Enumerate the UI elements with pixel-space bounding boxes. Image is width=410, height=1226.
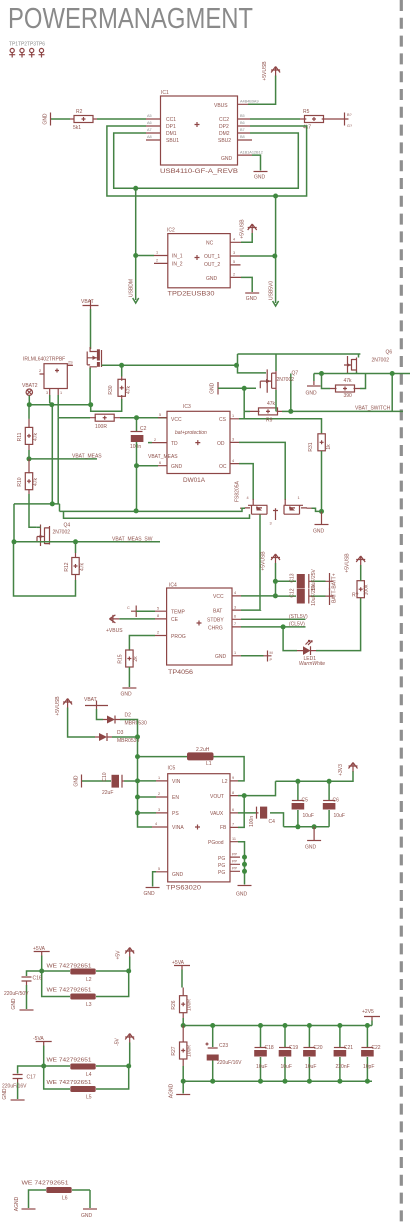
capacitor C12 xyxy=(290,583,318,605)
svg-text:IC1: IC1 xyxy=(161,90,169,96)
resistor R30 xyxy=(108,377,132,400)
svg-text:C22: C22 xyxy=(371,1045,380,1051)
svg-text:Q4: Q4 xyxy=(64,523,71,529)
node C20 rails xyxy=(307,1023,312,1028)
node bottom rail left xyxy=(181,1079,186,1084)
pin cross terminal at TEMP xyxy=(127,606,136,618)
svg-text:6: 6 xyxy=(232,808,234,812)
svg-text:GND: GND xyxy=(305,845,317,851)
svg-text:PROG: PROG xyxy=(171,634,186,640)
svg-text:VOUT: VOUT xyxy=(210,794,224,800)
node batt line 2 / VCC xyxy=(273,593,278,598)
resistor R26 xyxy=(171,988,193,1019)
svg-text:DW01A: DW01A xyxy=(183,477,205,484)
node C2 top xyxy=(134,415,139,420)
svg-text:GND: GND xyxy=(306,391,318,397)
svg-text:PP: PP xyxy=(232,853,238,857)
capacitor C13 xyxy=(290,568,318,590)
wire IC3 OC to fet gate xyxy=(239,464,253,500)
resistor R12 xyxy=(14,542,86,596)
svg-text:C13: C13 xyxy=(290,573,296,582)
svg-text:3: 3 xyxy=(233,251,235,255)
svg-text:A4B4B9A9: A4B4B9A9 xyxy=(240,100,259,104)
wire L1 to pin L2 xyxy=(214,757,245,781)
svg-text:6: 6 xyxy=(159,461,161,465)
svg-text:R5: R5 xyxy=(303,109,310,115)
resistor R27 xyxy=(171,1026,193,1067)
wire left loop lines xyxy=(14,405,60,542)
IC4 right pin stubs xyxy=(232,591,241,656)
svg-text:R10: R10 xyxy=(17,477,23,486)
LED1 diode xyxy=(297,641,325,668)
node PG1 xyxy=(242,855,247,860)
ground at R15 xyxy=(121,688,137,698)
svg-text:TP4056: TP4056 xyxy=(168,669,193,676)
wire VBAT to D2 xyxy=(97,709,104,720)
wire VOUT to rail xyxy=(238,781,276,795)
IC5 right pin stubs xyxy=(230,776,240,871)
svg-text:5: 5 xyxy=(158,867,160,871)
svg-text:A8: A8 xyxy=(147,135,152,139)
IC5 TPS63020 box xyxy=(166,766,230,892)
node IC2 output junction xyxy=(272,254,277,259)
svg-text:IC5: IC5 xyxy=(168,766,176,772)
svg-text:PG: PG xyxy=(218,863,225,869)
svg-text:4: 4 xyxy=(233,238,235,242)
node Q6 line left xyxy=(319,371,324,376)
ground at cap rail xyxy=(305,827,321,851)
ground at bead right xyxy=(81,1209,97,1219)
svg-text:2: 2 xyxy=(157,631,159,635)
svg-text:AGND: AGND xyxy=(169,1083,175,1098)
svg-text:R15: R15 xyxy=(118,654,124,663)
svg-text:GND: GND xyxy=(144,891,156,897)
ground at PG column xyxy=(236,886,252,898)
node C2 drop on line1 xyxy=(134,508,139,513)
svg-text:PGood: PGood xyxy=(208,840,224,846)
node C2 bottom / IC3 gnd xyxy=(134,463,139,468)
transistor Q6 2N7002 xyxy=(344,350,392,373)
svg-text:PP: PP xyxy=(232,867,238,871)
resistor R9 47k on CS line xyxy=(244,401,291,424)
svg-text:100R: 100R xyxy=(187,999,193,1011)
svg-text:1: 1 xyxy=(158,776,160,780)
node meas_sw R12 xyxy=(73,539,78,544)
svg-text:CE: CE xyxy=(171,617,179,623)
svg-text:47k: 47k xyxy=(80,562,86,571)
svg-text:VBAT: VBAT xyxy=(81,299,94,305)
svg-text:GND: GND xyxy=(215,654,227,660)
svg-text:POWERMANAGMENT: POWERMANAGMENT xyxy=(8,3,253,35)
supply arrow +5VUSB at diode D3 xyxy=(55,696,72,716)
wire VBAT2 to rail xyxy=(28,396,30,405)
svg-text:2N7002: 2N7002 xyxy=(53,530,71,536)
svg-text:IN_2: IN_2 xyxy=(172,262,183,268)
svg-text:2: 2 xyxy=(156,259,158,263)
wire +2V5 stem xyxy=(371,1021,373,1026)
svg-text:VBAT_MEAS: VBAT_MEAS xyxy=(148,454,178,460)
svg-text:100R: 100R xyxy=(95,424,107,430)
svg-text:P: P xyxy=(270,658,273,662)
wire VBAT_SWITCH line xyxy=(291,374,403,412)
svg-text:1: 1 xyxy=(60,391,62,395)
wire +5VUSB to D3 xyxy=(68,708,95,738)
wire Q7 gate from line A node xyxy=(237,365,267,373)
wire BAT pin up to FS8205A xyxy=(241,609,261,611)
node block1 right xyxy=(126,969,131,974)
wire -5VA stem xyxy=(43,1046,45,1067)
svg-text:B?: B? xyxy=(347,113,352,117)
testpoint TP1 xyxy=(9,48,15,57)
svg-text:+3V3: +3V3 xyxy=(338,764,344,776)
ferrite bead L2 xyxy=(42,964,129,984)
svg-text:B7: B7 xyxy=(240,128,245,132)
svg-text:100k: 100k xyxy=(364,584,370,595)
svg-text:+5V: +5V xyxy=(116,950,122,960)
wire USB data drop left xyxy=(135,188,137,300)
svg-text:5: 5 xyxy=(233,260,235,264)
wire IC3 CS to R31 xyxy=(239,419,322,434)
svg-text:7: 7 xyxy=(232,823,234,827)
ground at C16 xyxy=(11,998,34,1010)
svg-text:C18: C18 xyxy=(265,1045,274,1051)
node VBAT rail Q5 xyxy=(88,402,93,407)
node C5 top xyxy=(295,779,300,784)
net arrow USBDP xyxy=(269,281,279,306)
svg-text:1: 1 xyxy=(232,414,234,418)
ground at IC5 left xyxy=(144,888,160,898)
svg-text:9: 9 xyxy=(232,776,234,780)
svg-text:TEMP: TEMP xyxy=(171,610,186,616)
wire VBAT_MEAS_SW line xyxy=(14,541,160,543)
node meas_sw left xyxy=(12,539,17,544)
p-mosfet Q5 xyxy=(87,347,101,369)
wire CE pin to +VBUS xyxy=(119,618,155,620)
wire arrow stem block2 xyxy=(129,1043,131,1067)
wire GND to R2 xyxy=(51,118,70,120)
svg-text:USBDM: USBDM xyxy=(129,279,135,297)
wire jog up to 47k line xyxy=(243,411,245,418)
svg-text:GND: GND xyxy=(172,872,184,878)
svg-text:VBAT_MEAS: VBAT_MEAS xyxy=(72,454,102,460)
resistor R29 below Q6 xyxy=(322,374,366,400)
node VOUT xyxy=(242,793,247,798)
supply arrow +VBUS (left) xyxy=(106,615,123,634)
resistor R31 xyxy=(308,434,332,452)
wire TEMP pin xyxy=(136,610,155,612)
svg-text:10uF/25V: 10uF/25V xyxy=(311,583,317,605)
node C22 rails xyxy=(365,1023,370,1028)
wire bead right down xyxy=(89,1190,91,1208)
node diode OR xyxy=(135,734,140,739)
IC4 TP4056 box xyxy=(167,583,232,677)
capacitor C22 xyxy=(361,1026,381,1082)
svg-text:47k: 47k xyxy=(126,385,132,394)
wire R31 down to gnd node xyxy=(321,451,323,511)
supply arrow +3V3 xyxy=(338,763,358,776)
svg-text:A5: A5 xyxy=(147,114,152,118)
svg-text:7: 7 xyxy=(234,622,236,626)
node meas line xyxy=(27,456,32,461)
wire IC2 out to node xyxy=(240,255,275,257)
svg-text:DP2: DP2 xyxy=(219,124,229,130)
wire R30 top xyxy=(121,365,123,376)
svg-text:IC3: IC3 xyxy=(183,404,191,410)
node VBAT rail at circle xyxy=(27,402,32,407)
wire GND pin left xyxy=(153,872,156,887)
supply arrow -5V (block2) xyxy=(115,1034,135,1046)
wire DP2 loop right outer xyxy=(107,126,307,196)
wire VIN feed column xyxy=(138,737,153,827)
ferrite bead L3 xyxy=(42,971,129,1008)
svg-text:WarmWhite: WarmWhite xyxy=(299,661,325,667)
node Q7 tie / R9 branch xyxy=(242,386,247,391)
wire tie node down to R9 line xyxy=(243,388,245,411)
svg-text:VBAT2: VBAT2 xyxy=(22,383,38,389)
svg-text:R30: R30 xyxy=(108,385,114,394)
transistor T1 package IRLML6402TRPBF xyxy=(23,357,73,396)
svg-text:GND: GND xyxy=(11,998,17,1010)
svg-text:OD: OD xyxy=(217,441,225,447)
wire EN pin xyxy=(138,796,157,798)
node line A right xyxy=(234,363,239,368)
svg-text:C: C xyxy=(127,606,130,610)
svg-text:1: 1 xyxy=(298,496,300,500)
ground (rotated) at Q7 source tie xyxy=(210,382,219,395)
svg-text:EN: EN xyxy=(172,795,179,801)
wire R26 to top rail xyxy=(182,1018,184,1026)
wire R8 to IC3 VCC xyxy=(120,417,167,419)
capacitor C17 block2 xyxy=(2,1066,44,1099)
IC3 right pin stubs xyxy=(230,414,239,464)
svg-text:PG: PG xyxy=(218,870,225,876)
svg-text:C16: C16 xyxy=(33,976,42,982)
node block2 right xyxy=(126,1064,131,1069)
wire top rail xyxy=(183,1025,372,1027)
ground at C17 xyxy=(2,1088,25,1100)
svg-text:10uF: 10uF xyxy=(305,1064,316,1070)
svg-text:CHRG: CHRG xyxy=(208,626,223,632)
svg-text:A6: A6 xyxy=(147,121,152,125)
svg-text:4: 4 xyxy=(232,459,234,463)
svg-text:VCC: VCC xyxy=(213,594,224,600)
wire VBAT_MEAS line xyxy=(29,458,97,460)
node top rail left xyxy=(181,1023,186,1028)
capacitor C6 xyxy=(323,781,345,827)
svg-text:4: 4 xyxy=(247,496,249,500)
capacitor C16 block1 xyxy=(4,971,42,1009)
svg-text:C21: C21 xyxy=(344,1045,353,1051)
resistor R15 PROG xyxy=(118,650,140,667)
node VBAT rail T1 pin xyxy=(49,402,54,407)
svg-text:IN_1: IN_1 xyxy=(172,254,183,260)
wire bead left down xyxy=(29,1190,39,1208)
svg-text:10uF: 10uF xyxy=(281,1064,292,1070)
supply arrow +5VUSB at R14 xyxy=(345,553,366,573)
node batt line 1 xyxy=(273,579,278,584)
wire R15 to gnd xyxy=(128,667,130,687)
svg-text:L5: L5 xyxy=(86,1095,92,1101)
svg-text:10uF: 10uF xyxy=(334,813,345,819)
svg-text:5: 5 xyxy=(157,607,159,611)
supply T +2V5 xyxy=(362,1009,380,1021)
svg-text:TP1TP2TP3TP6: TP1TP2TP3TP6 xyxy=(9,42,45,48)
IC2 left pin stubs xyxy=(154,251,168,264)
wire VAUX line xyxy=(238,813,284,827)
supply T +5VA (chain) xyxy=(172,960,190,970)
wire PGood / PG pins column xyxy=(238,842,245,885)
svg-text:5k1: 5k1 xyxy=(73,125,81,131)
wire gate line A xyxy=(102,364,237,366)
svg-text:1: 1 xyxy=(156,251,158,255)
resistor R11 xyxy=(17,405,39,459)
svg-text:-5V: -5V xyxy=(115,1037,121,1045)
svg-text:+2V5: +2V5 xyxy=(362,1009,374,1015)
svg-text:+5VUSB: +5VUSB xyxy=(345,553,351,573)
svg-text:3: 3 xyxy=(270,522,272,526)
ferrite bead L6 xyxy=(22,1181,91,1202)
svg-text:3: 3 xyxy=(158,808,160,812)
svg-text:VBAT: VBAT xyxy=(84,697,97,703)
wire IC2 GND xyxy=(241,277,252,292)
svg-text:C19: C19 xyxy=(289,1045,298,1051)
net arrow USBDM xyxy=(129,279,139,303)
node block1 left xyxy=(39,969,44,974)
wire VBAT down to section 2 xyxy=(90,309,92,349)
wire T1 pin3 to rail xyxy=(50,395,52,405)
svg-text:L1: L1 xyxy=(206,761,212,767)
svg-text:C6: C6 xyxy=(333,798,340,804)
wire source line under Q6 xyxy=(314,373,410,375)
wire PROG pin down xyxy=(129,636,155,651)
wire VCC pin to node xyxy=(241,595,275,597)
svg-text:WE 742792651: WE 742792651 xyxy=(47,1058,92,1064)
supply arrow +5VUSB at IC1 VBUS xyxy=(262,61,280,81)
svg-text:CC2: CC2 xyxy=(219,117,229,123)
svg-text:WE 742792651: WE 742792651 xyxy=(47,1080,92,1086)
wire CE2 pin to cross xyxy=(241,655,264,657)
svg-text:100n: 100n xyxy=(130,444,141,450)
svg-text:CS: CS xyxy=(219,417,227,423)
svg-text:+VBUS: +VBUS xyxy=(106,628,123,634)
wire R14 to supply xyxy=(360,565,362,581)
svg-text:IC2: IC2 xyxy=(167,228,175,234)
svg-text:1: 1 xyxy=(234,651,236,655)
svg-text:PP: PP xyxy=(232,860,238,864)
svg-text:22uF: 22uF xyxy=(102,790,113,796)
svg-text:R31: R31 xyxy=(308,442,314,451)
svg-text:4: 4 xyxy=(155,822,157,826)
ferrite bead L5 xyxy=(44,1066,129,1101)
node block2 left xyxy=(41,1064,46,1069)
wire fet middle down to IC4 xyxy=(259,515,261,611)
svg-text:+5VUSB: +5VUSB xyxy=(55,696,61,716)
ground AGND left xyxy=(14,1196,36,1211)
supply arrow +5V (block1) xyxy=(116,948,135,960)
svg-text:SBU2: SBU2 xyxy=(218,138,231,144)
wire VBAT rail xyxy=(29,404,90,406)
wire CC2 to R5 xyxy=(250,118,300,120)
node C19 rails xyxy=(283,1023,288,1028)
node PG2 xyxy=(242,862,247,867)
svg-text:OC: OC xyxy=(219,464,227,470)
wire Q6 gate/drain/source leads xyxy=(348,354,359,374)
wire batt line 2 xyxy=(275,595,325,597)
node on DM loop xyxy=(133,186,138,191)
transistor Q4 2N7002 xyxy=(37,523,70,547)
wire R30 bottom jog to VBAT rail xyxy=(91,399,122,411)
IC5 left pin stubs xyxy=(152,776,168,872)
svg-text:DM2: DM2 xyxy=(219,131,230,137)
capacitor C21 xyxy=(334,1026,354,1082)
inductor L1 2.2uH xyxy=(187,747,214,767)
wire fet right to gnd node xyxy=(312,508,322,511)
ground at Q6 xyxy=(306,374,321,397)
svg-text:A7: A7 xyxy=(147,128,152,132)
svg-text:GND: GND xyxy=(206,276,218,282)
svg-text:R12: R12 xyxy=(64,562,70,571)
node L1 tap xyxy=(135,754,140,759)
svg-text:D3: D3 xyxy=(117,730,124,736)
node C18 rails xyxy=(258,1023,263,1028)
svg-text:Q7: Q7 xyxy=(292,371,299,377)
node Q6 line right xyxy=(390,371,395,376)
svg-text:PG: PG xyxy=(218,856,225,862)
IC1 USB4110 connector box xyxy=(160,90,239,175)
svg-text:CC1: CC1 xyxy=(166,117,176,123)
svg-text:4: 4 xyxy=(234,591,236,595)
svg-text:2k: 2k xyxy=(133,656,139,662)
testpoint TP2 xyxy=(19,48,25,57)
wire IC3 TD stub xyxy=(148,442,152,444)
wire +5VUSB stem to VCC xyxy=(275,563,277,596)
svg-text:TPD2EUSB30: TPD2EUSB30 xyxy=(168,291,215,298)
resistor R5 xyxy=(300,109,341,131)
svg-text:C5: C5 xyxy=(302,798,309,804)
wire Q7 drain up to line / source down xyxy=(238,354,277,411)
ferrite bead L4 xyxy=(44,1058,129,1079)
svg-text:B6: B6 xyxy=(240,121,245,125)
wire CHRG pin xyxy=(241,626,306,628)
svg-text:6: 6 xyxy=(234,615,236,619)
resistor R8 100R xyxy=(90,414,120,430)
diode D2 MBR0530 xyxy=(103,713,147,727)
svg-text:C10: C10 xyxy=(102,772,108,781)
svg-text:VIN: VIN xyxy=(172,779,181,785)
testpoint TP6 xyxy=(39,48,45,57)
svg-text:2N7002: 2N7002 xyxy=(277,377,295,383)
wire Q7 bypass riser xyxy=(290,374,292,412)
supply T -5VA (block 2) xyxy=(33,1036,52,1046)
svg-text:VAUX: VAUX xyxy=(210,811,224,817)
IC2 TPD2E ESD protection box xyxy=(167,228,230,298)
svg-text:3: 3 xyxy=(232,438,234,442)
svg-text:L2: L2 xyxy=(222,779,228,785)
svg-text:DM1: DM1 xyxy=(166,131,177,137)
wire IC1 GND pin xyxy=(252,155,261,170)
capacitor C5 xyxy=(292,781,314,827)
node R30 top tap xyxy=(119,363,124,368)
node PS xyxy=(135,810,140,815)
wire bottom cap rail xyxy=(284,826,330,828)
wire bottom rail xyxy=(183,1080,372,1082)
svg-text:220nF: 220nF xyxy=(336,1064,350,1070)
svg-text:VBUS: VBUS xyxy=(214,103,228,109)
svg-text:47k: 47k xyxy=(344,378,353,384)
svg-text:10uF: 10uF xyxy=(256,1064,267,1070)
svg-text:47k: 47k xyxy=(267,401,276,407)
svg-text:C2: C2 xyxy=(140,426,147,432)
